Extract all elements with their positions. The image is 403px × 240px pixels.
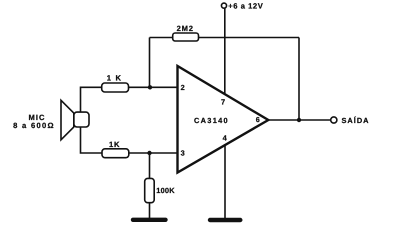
wire 1K top to pin 2 [129, 86, 178, 88]
ground (pin 4) [210, 218, 240, 222]
wire feedback left vertical down to node A [149, 38, 151, 88]
wire supply vertical to pin 7 [224, 8, 226, 94]
op-amp U1 CA3140 triangle [178, 66, 269, 173]
svg-text:1K: 1K [109, 140, 120, 149]
output node junction dot [297, 118, 301, 122]
microphone MIC speaker symbol [61, 100, 89, 140]
wire mic bottom vertical [81, 127, 103, 153]
node B junction dot [147, 151, 151, 155]
svg-text:100K: 100K [156, 186, 175, 195]
wire pin 4 to ground [224, 144, 226, 218]
resistor R2 1K top [102, 83, 129, 92]
resistor R3 1K bottom [102, 149, 129, 158]
ground (under 100K) [133, 218, 166, 222]
wire feedback right vertical down to output node [298, 38, 300, 121]
wire mic top vertical [81, 87, 102, 112]
svg-text:8 a 600Ω: 8 a 600Ω [13, 121, 55, 130]
wire feedback right horizontal [199, 37, 300, 39]
svg-text:CA3140: CA3140 [194, 116, 229, 125]
wire output pin 6 [268, 119, 331, 121]
wire 1K bottom to pin 3 [129, 152, 178, 154]
svg-text:6: 6 [256, 115, 260, 124]
svg-text:2M2: 2M2 [177, 24, 194, 33]
wire 100K to ground [149, 203, 151, 219]
svg-text:+6 a 12V: +6 a 12V [228, 2, 263, 11]
wire node B down to 100K [149, 153, 151, 178]
svg-text:3: 3 [181, 148, 185, 157]
terminal SAIDA output [331, 117, 337, 123]
svg-text:7: 7 [221, 98, 225, 107]
svg-text:2: 2 [181, 83, 185, 92]
node A junction dot [148, 85, 152, 89]
resistor R1 2M2 [173, 33, 199, 41]
terminal +V supply [221, 3, 226, 8]
resistor R4 100K [145, 178, 155, 202]
svg-text:1 K: 1 K [107, 74, 122, 83]
wire feedback left horizontal [150, 37, 174, 39]
svg-text:SAÍDA: SAÍDA [342, 116, 370, 125]
